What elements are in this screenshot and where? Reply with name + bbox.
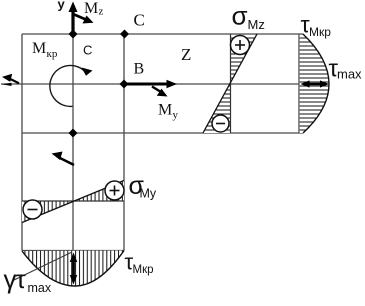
bottom double arrow xyxy=(72,258,75,279)
svg-text:M: M xyxy=(158,102,172,119)
svg-text:y: y xyxy=(58,0,66,12)
node at (73,34) xyxy=(69,30,78,39)
svg-text:τ: τ xyxy=(16,264,27,294)
minus circle sigma_Mz xyxy=(212,115,229,132)
axis arrow at B pointing right xyxy=(124,83,169,86)
svg-text:Мкр: Мкр xyxy=(133,264,154,276)
svg-text:max: max xyxy=(337,67,362,82)
svg-text:max: max xyxy=(28,281,52,295)
wire: top edge y=34 xyxy=(22,33,303,35)
svg-text:σ: σ xyxy=(232,1,248,31)
svg-text:B: B xyxy=(134,61,145,78)
svg-text:Mz: Mz xyxy=(248,17,265,32)
node at (73,133) xyxy=(69,129,78,138)
sigma_Mz plus region (hatched) xyxy=(231,34,258,83)
sigma_Mz baseline xyxy=(230,34,232,133)
wire: middle axis y=84 xyxy=(1,83,299,85)
wire: vertical center line x=73 xyxy=(72,34,74,251)
tau_max double arrow xyxy=(306,83,324,86)
tau right curve xyxy=(303,34,329,133)
svg-text:Мкр: Мкр xyxy=(309,25,331,39)
sigma_Mz minus region (hatched) xyxy=(203,83,231,133)
node B at (124,84) xyxy=(120,80,129,89)
svg-text:Z: Z xyxy=(181,45,191,64)
svg-text:C: C xyxy=(83,43,92,58)
tau bottom curve xyxy=(22,251,124,287)
y axis bold arrow xyxy=(71,9,74,34)
tau right region (hatched) xyxy=(300,34,329,133)
svg-text:z: z xyxy=(99,6,104,18)
left axis small arrowhead xyxy=(2,83,12,86)
svg-text:y: y xyxy=(173,109,179,121)
svg-text:My: My xyxy=(140,187,157,201)
moment arrow My (small, down-right) xyxy=(152,87,161,93)
left face arrow (bold up-left) xyxy=(10,79,20,84)
svg-text:кр: кр xyxy=(47,48,58,60)
sigma_My plus region (hatched) xyxy=(73,181,124,202)
sigma_Mz diagonal xyxy=(203,34,257,133)
torque arc Mkr xyxy=(50,65,86,106)
plus circle sigma_Mz xyxy=(231,36,250,55)
minus circle sigma_My xyxy=(23,200,42,219)
tau bottom region (hatched parabola) xyxy=(22,251,124,287)
wire: vertical line x=124 xyxy=(123,34,125,251)
wire: vertical member left edge x=22 xyxy=(21,34,23,251)
plus circle sigma_My xyxy=(105,181,124,200)
node C at (124.5,34) xyxy=(120,30,129,39)
svg-text:C: C xyxy=(134,11,145,30)
svg-text:M: M xyxy=(32,40,46,57)
column small arrow (up-left) xyxy=(59,158,74,166)
wire: right edge x=299 xyxy=(298,34,300,133)
wire: lower edge y=133 xyxy=(22,132,303,134)
svg-text:M: M xyxy=(84,0,98,17)
wire: column bottom edge y=250.5 xyxy=(22,250,124,252)
moment arrow Mz xyxy=(73,14,87,20)
sigma_My baseline xyxy=(22,200,124,202)
sigma_My diagonal xyxy=(22,181,124,223)
leader line gamma tau max xyxy=(12,253,71,282)
sigma_My minus region (hatched) xyxy=(22,201,73,223)
